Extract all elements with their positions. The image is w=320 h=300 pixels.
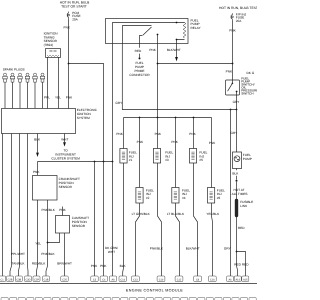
camshaft position sensor box <box>56 216 90 234</box>
svg-text:C10: C10 <box>159 278 164 281</box>
wire BLK below fuel pump <box>232 169 239 200</box>
ECM boundary line <box>0 283 257 285</box>
label fuel pump switch / oil pressure switch <box>241 77 258 96</box>
svg-text:#6: #6 <box>217 196 221 200</box>
pin M C10 <box>157 276 165 282</box>
wire camshaft sensor branch to PNK/BLK <box>48 233 60 243</box>
wire RED to fuel pump prime connector <box>135 44 142 60</box>
pin H C3 <box>91 276 98 282</box>
svg-text:SENSOR: SENSOR <box>59 185 73 189</box>
wire EIS output B <box>10 134 12 277</box>
wire PNK to pin C4 <box>68 63 108 276</box>
svg-text:SPARK PLUGS: SPARK PLUGS <box>3 67 25 71</box>
wire col4 PNK to injector 4 <box>171 118 178 188</box>
svg-text:C16: C16 <box>210 278 215 281</box>
electronic ignition system box <box>2 108 98 133</box>
svg-text:SWITCH: SWITCH <box>241 92 254 96</box>
wire YEL from crankshaft sensor to pin <box>35 200 41 276</box>
svg-text:LT BLU/BLK: LT BLU/BLK <box>167 212 185 216</box>
svg-text:TAN/BLK: TAN/BLK <box>12 261 26 265</box>
svg-text:ENGINE CONTROL MODULE: ENGINE CONTROL MODULE <box>126 288 183 292</box>
svg-text:BLK/WHT: BLK/WHT <box>167 48 181 52</box>
svg-text:PNK: PNK <box>155 132 162 136</box>
svg-text:PNK: PNK <box>33 170 40 174</box>
wire GRY stub above injector bus <box>115 44 236 110</box>
svg-text:PNK: PNK <box>229 28 236 32</box>
svg-text:LT GRN/BLK: LT GRN/BLK <box>132 212 151 216</box>
pin K C14 <box>119 276 126 282</box>
wire PNK from F/P INJ fuse down to junction <box>229 21 236 64</box>
svg-text:RED/BLK: RED/BLK <box>32 261 46 265</box>
svg-text:RED: RED <box>234 262 241 266</box>
svg-text:PPL: PPL <box>44 96 50 100</box>
fusible link <box>237 200 254 216</box>
wire GRY to pin A6 <box>224 110 238 277</box>
svg-text:WHT: WHT <box>108 250 115 254</box>
svg-text:BRN/WHT: BRN/WHT <box>57 261 72 265</box>
header HOT IN RUN BULB TEST OR START (left) <box>60 0 90 8</box>
ignition timing sensor (7B94) label <box>44 32 59 47</box>
wire BLK/WHT col5 to pin C8 <box>186 163 200 276</box>
pin L C13 <box>132 276 140 282</box>
svg-text:PNK: PNK <box>66 96 73 100</box>
wire P1 horizontal pump feed line <box>230 109 238 111</box>
svg-text:C1B: C1B <box>44 278 49 281</box>
fuel pump <box>233 110 252 169</box>
wire BLK/WHT relay ground <box>167 44 181 62</box>
pin C <box>15 276 22 282</box>
wire PNK relay output (col3 feed) <box>149 44 157 118</box>
wire WHT from EIS to instrument cluster <box>51 134 80 161</box>
pin G C25 <box>61 276 68 282</box>
relay box fuel pump relay <box>106 18 202 43</box>
svg-text:#1: #1 <box>129 158 133 162</box>
svg-text:CONNECTOR: CONNECTOR <box>129 73 150 77</box>
svg-text:C3B: C3B <box>16 278 21 281</box>
svg-text:PNK: PNK <box>116 132 123 136</box>
wire EIS output A <box>2 134 4 277</box>
wire EIS output D <box>27 134 30 277</box>
wire YEL/BLK col6 to pin C16 <box>206 203 220 276</box>
wire PNK/BLK from crankshaft sensor to pin <box>41 200 55 276</box>
spark plug 4 <box>25 73 29 108</box>
svg-text:PNK: PNK <box>100 264 107 268</box>
pin R A14 <box>234 276 241 282</box>
svg-text:C25: C25 <box>62 278 67 281</box>
svg-text:#3: #3 <box>165 158 169 162</box>
svg-text:PUMP: PUMP <box>243 157 252 161</box>
svg-text:YEL/BLK: YEL/BLK <box>206 212 220 216</box>
wire BLK from EIS to ground arrow <box>34 134 41 158</box>
svg-text:BLK: BLK <box>120 264 127 268</box>
label HOT AT ALL TIMES <box>232 188 248 196</box>
svg-text:C2B: C2B <box>8 278 13 281</box>
svg-text:GRY: GRY <box>231 131 239 135</box>
wire col2 PNK to injector 2 <box>137 118 144 188</box>
crankshaft position sensor box <box>33 176 80 201</box>
svg-text:A14: A14 <box>235 278 240 281</box>
svg-text:CLUSTER SYSTEM: CLUSTER SYSTEM <box>51 157 80 161</box>
wire col5 PNK to injector 5 <box>189 118 196 149</box>
switch box fuel pump / oil pressure switch <box>226 80 240 95</box>
injector fuel inj #2 <box>136 188 154 204</box>
svg-text:20A: 20A <box>72 17 78 21</box>
svg-text:PPL/WHT: PPL/WHT <box>11 252 25 256</box>
wire LT BLU/BLK col4 to pin C12 <box>167 203 185 276</box>
wire col1 PNK to injector 1 <box>116 118 123 149</box>
svg-text:ALL TIMES: ALL TIMES <box>232 192 248 196</box>
svg-text:PNK/BLK: PNK/BLK <box>41 252 55 256</box>
injector fuel inj #1 <box>120 149 137 164</box>
injector fuel inj #4 <box>172 188 190 204</box>
svg-text:GRY: GRY <box>233 100 241 104</box>
svg-text:BLK: BLK <box>232 172 239 176</box>
svg-text:#4: #4 <box>182 196 186 200</box>
svg-text:C14: C14 <box>120 278 125 281</box>
wire EIS output C <box>19 134 20 277</box>
wire PNK/BLK col3 to pin C10 <box>150 118 164 277</box>
svg-text:C3D: C3D <box>25 278 30 281</box>
svg-text:RED: RED <box>135 49 142 53</box>
svg-text:PNK: PNK <box>91 264 98 268</box>
pin J A8 <box>109 276 116 282</box>
injector fuel inj #3 <box>153 149 173 164</box>
wire RED from fusible link to pins A14 A15 <box>234 216 249 277</box>
wire col6 PNK to injector 6 <box>209 118 216 188</box>
wire P2 injector bus <box>124 117 212 119</box>
svg-text:RED: RED <box>238 226 245 230</box>
svg-text:PNK: PNK <box>226 69 233 73</box>
svg-text:#5: #5 <box>199 158 203 162</box>
svg-text:SENSOR: SENSOR <box>72 224 86 228</box>
svg-text:C13: C13 <box>133 278 138 281</box>
svg-text:PNK/BLK: PNK/BLK <box>42 208 56 212</box>
wire BRN/WHT from camshaft sensor to pin C25 <box>57 233 72 276</box>
svg-text:BLK: BLK <box>34 138 41 142</box>
svg-text:GRY: GRY <box>115 101 123 105</box>
svg-text:PNK: PNK <box>171 140 178 144</box>
spark plug 1 <box>3 73 7 108</box>
svg-text:RED: RED <box>242 262 249 266</box>
cropped lower connector row <box>1 297 256 300</box>
wire GRY switch output <box>233 95 241 110</box>
pin N C12 <box>175 276 183 282</box>
svg-text:SYSTEM: SYSTEM <box>77 116 90 120</box>
svg-text:LINK: LINK <box>240 204 248 208</box>
svg-text:PNK: PNK <box>209 141 216 145</box>
connector ignition timing sensor <box>46 49 61 58</box>
wire DK GRN/WHT to pin A8 <box>105 44 118 277</box>
svg-text:PNK: PNK <box>64 26 71 30</box>
pin I C4 <box>100 276 107 282</box>
svg-text:BLK/WHT: BLK/WHT <box>186 247 200 251</box>
svg-text:YEL: YEL <box>35 242 41 246</box>
spark plug 6 <box>40 73 44 108</box>
pin F <box>43 276 50 282</box>
svg-text:#2: #2 <box>146 196 150 200</box>
wire LT GRN/BLK col2 to pin C13 <box>132 203 151 276</box>
fuse F/P INJ FUSE 20A <box>231 12 247 22</box>
pin B <box>7 276 14 282</box>
wire col3 PNK to injector 3 <box>155 132 162 136</box>
injector fuel inj #5 <box>189 149 207 164</box>
svg-text:(7B94): (7B94) <box>44 43 53 47</box>
wire labels PPL YEL PNK above EIS <box>44 96 73 100</box>
spark plug 2 <box>10 73 14 108</box>
wire cluster feed horizontal <box>38 161 114 163</box>
svg-text:HOT IN RUN, BULB TEST: HOT IN RUN, BULB TEST <box>219 6 257 10</box>
svg-text:RELAY: RELAY <box>191 26 202 30</box>
svg-text:TEST OR START: TEST OR START <box>61 5 87 9</box>
svg-text:WHT: WHT <box>61 138 68 142</box>
svg-text:PNK: PNK <box>149 48 156 52</box>
svg-text:PNK: PNK <box>189 132 196 136</box>
svg-text:C12: C12 <box>177 278 182 281</box>
label fuel pump prime connector <box>129 61 150 77</box>
svg-text:A15: A15 <box>243 278 248 281</box>
wire PPL from timing sensor <box>47 58 49 109</box>
wire PNK to pin C3 <box>91 162 98 277</box>
svg-text:YEL: YEL <box>55 96 61 100</box>
wire YEL from timing sensor <box>58 58 60 109</box>
spark plug 3 <box>18 73 22 108</box>
relay internal wire pin 1 to coil top <box>113 22 185 44</box>
relay coil <box>176 23 186 44</box>
pin D <box>25 276 32 282</box>
svg-text:C2P: C2P <box>34 278 39 281</box>
wire col1 to pin C14 <box>120 163 127 276</box>
wire PNK to camshaft sensor <box>59 207 66 216</box>
pin Q A6 <box>227 276 234 282</box>
pin S A15 <box>242 276 249 282</box>
wire PNK from PCM fuse to EIS <box>64 19 71 109</box>
relay switch arm and contacts <box>140 27 159 44</box>
relay internal wire pin 2 to switch arm <box>123 26 152 44</box>
pin A <box>0 276 6 282</box>
svg-text:GRY: GRY <box>224 247 232 251</box>
injector fuel inj #6 <box>208 188 226 204</box>
svg-text:20A: 20A <box>236 19 242 23</box>
svg-text:PNK/BLK: PNK/BLK <box>150 247 164 251</box>
pin O C8 <box>194 276 202 282</box>
fuse PCM FUSE 20A <box>67 11 80 21</box>
wire PNK to crankshaft sensor <box>33 162 40 176</box>
pin P C16 <box>208 276 216 282</box>
svg-text:PNK: PNK <box>59 208 66 212</box>
wire PNK horizontal from relay to oil pressure switch <box>157 63 234 80</box>
pin E <box>33 276 40 282</box>
svg-text:DK G: DK G <box>247 71 255 75</box>
svg-text:PNK: PNK <box>137 140 144 144</box>
spark plug 5 <box>33 73 37 108</box>
